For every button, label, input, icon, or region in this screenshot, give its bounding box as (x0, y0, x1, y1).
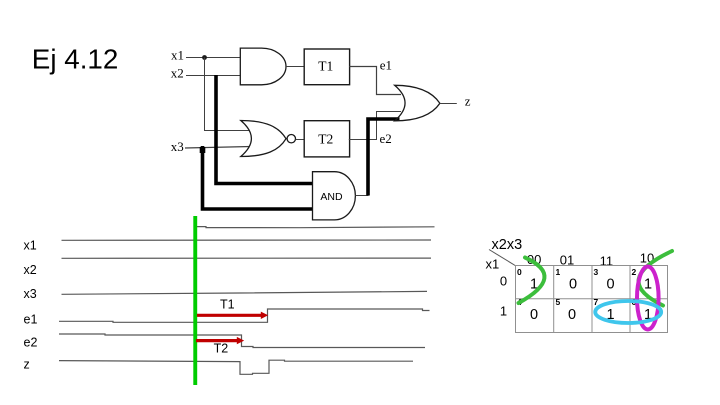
svg-text:x3: x3 (171, 139, 184, 154)
svg-text:x2x3: x2x3 (492, 237, 523, 253)
svg-text:1: 1 (556, 267, 561, 277)
wire x2 to AND gate G1 (186, 75, 241, 77)
timing trace unlabeled top (197, 227, 435, 228)
wire bubble to T2 (296, 139, 305, 141)
svg-text:5: 5 (556, 297, 561, 307)
svg-text:1: 1 (500, 304, 507, 319)
svg-text:T2: T2 (214, 342, 229, 356)
svg-text:AND: AND (320, 191, 343, 203)
NOR gate G2 (241, 121, 286, 157)
kmap minterm numbers (517, 267, 637, 307)
svg-text:z: z (465, 94, 471, 109)
thick wire x2 down to AND gate G3 (216, 75, 313, 184)
thick wire G3 output up to OR gate G4 (368, 119, 400, 196)
timing trace e1 (59, 309, 430, 322)
svg-text:x1: x1 (24, 239, 37, 253)
svg-text:0: 0 (530, 307, 538, 323)
delay box T1 (304, 49, 349, 85)
svg-text:0: 0 (569, 277, 577, 293)
svg-text:e2: e2 (380, 131, 392, 146)
junction dot on x1 (202, 55, 207, 60)
svg-text:T1: T1 (318, 58, 333, 73)
svg-text:0: 0 (568, 307, 576, 323)
OR gate G4 (395, 85, 440, 121)
thick wire x3 down to AND gate G3 (203, 146, 314, 209)
svg-text:0: 0 (500, 274, 507, 289)
green group arc left (m0) (519, 258, 545, 304)
svg-text:Ej 4.12: Ej 4.12 (32, 44, 119, 75)
svg-text:x1: x1 (171, 48, 184, 63)
svg-text:z: z (24, 358, 30, 372)
green cursor line (193, 216, 197, 385)
wire z output (440, 103, 457, 105)
svg-text:e1: e1 (380, 58, 392, 73)
svg-text:2: 2 (632, 267, 637, 277)
wire x1 down to NOR gate G2 (205, 58, 251, 131)
svg-text:x2: x2 (171, 65, 184, 80)
kmap grid (516, 266, 668, 333)
svg-text:11: 11 (600, 253, 614, 268)
AND gate G3 (313, 172, 356, 220)
red delay arrow T2 (196, 337, 244, 344)
svg-text:0: 0 (606, 277, 614, 293)
delay box T2 (304, 121, 349, 157)
timing trace x1 (62, 239, 432, 241)
svg-text:x1: x1 (486, 257, 500, 272)
svg-text:e1: e1 (24, 312, 38, 326)
svg-text:0: 0 (517, 267, 522, 277)
wire G1 output to T1 (286, 66, 304, 68)
svg-text:T1: T1 (220, 298, 235, 312)
wire x3 to NOR gate G2 (185, 147, 251, 149)
svg-text:T2: T2 (318, 131, 333, 146)
junction blob x3 (200, 147, 206, 153)
svg-text:x3: x3 (24, 287, 37, 301)
svg-text:3: 3 (594, 267, 599, 277)
timing trace e2 (59, 334, 425, 348)
kmap diagonal (489, 250, 516, 267)
svg-text:x2: x2 (24, 263, 37, 277)
wire e1 from T1 to OR gate G4 (349, 67, 401, 95)
AND gate G1 (240, 48, 286, 85)
kmap cell values (530, 277, 652, 323)
timing trace x3 (62, 291, 428, 294)
wire G3 output (355, 195, 368, 197)
magenta group (m2,m6) (637, 267, 659, 330)
cyan group (m7,m6) (595, 301, 661, 323)
NOR bubble (287, 135, 295, 143)
timing trace z (59, 360, 413, 374)
red delay arrow T1 (197, 312, 268, 319)
svg-text:1: 1 (644, 277, 652, 293)
svg-text:e2: e2 (24, 335, 38, 349)
wire e2 from T2 to OR gate G4 (349, 112, 401, 140)
timing trace x2 (62, 257, 432, 259)
green group arc right (m2) (639, 251, 672, 306)
wire x1 to AND gate G1 (186, 57, 241, 59)
